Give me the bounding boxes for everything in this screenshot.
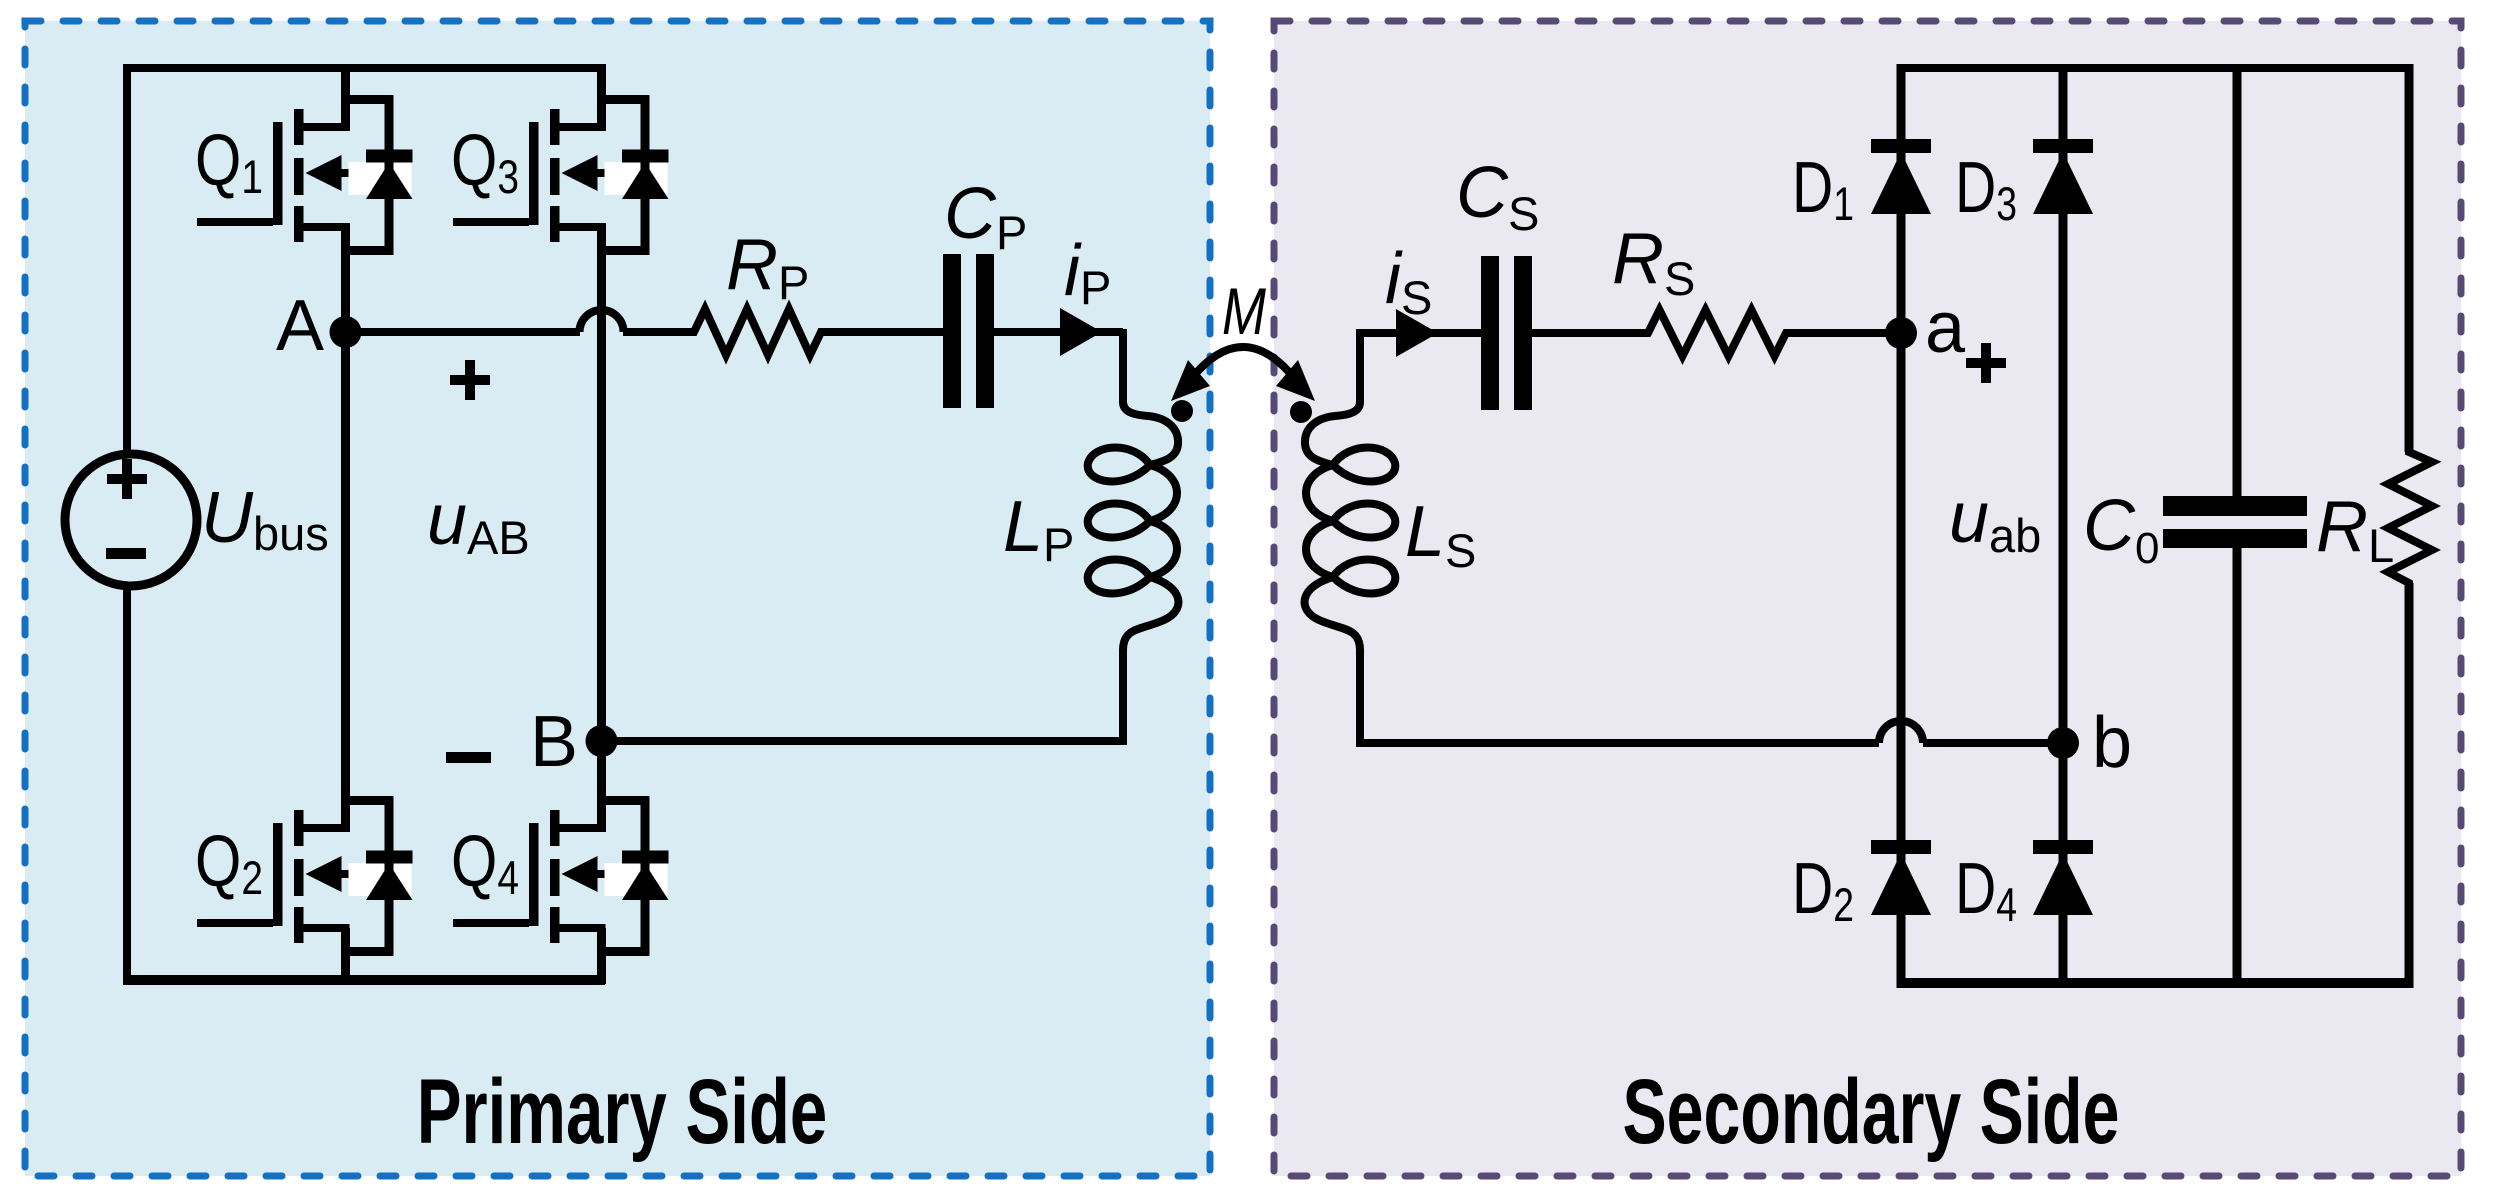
transistor Q1 (197, 95, 413, 255)
diode D2 (1871, 840, 1931, 915)
minus sign uAB (446, 752, 491, 763)
resistor RS (1642, 310, 1792, 356)
dot mark LS (1290, 401, 1312, 423)
transistor Q3 (453, 95, 669, 255)
wire: hop to node b (1923, 739, 2063, 747)
wire: LS top vertical (1356, 329, 1364, 389)
wire: left rail lower (123, 586, 131, 982)
node B (586, 725, 618, 757)
svg-text:a: a (1925, 288, 1966, 368)
wire hop over Q3 column (580, 310, 624, 332)
wire: left column vertical (Q1 source to Q2 drain) (341, 223, 350, 832)
coupling arrowhead right (1276, 360, 1315, 401)
plus sign uAB (450, 375, 490, 385)
svg-text:Secondary Side: Secondary Side (1623, 1059, 2120, 1162)
wire: C0 column upper (2233, 64, 2242, 496)
mutual coupling arc M (1187, 347, 1299, 384)
diode D1 (1871, 139, 1931, 214)
inductor LS (1305, 383, 1396, 743)
capacitor C0 (2163, 496, 2307, 516)
inductor LP (1088, 383, 1179, 743)
wire: top rail (123, 64, 605, 72)
svg-text:M: M (1222, 274, 1266, 348)
capacitor CP (943, 254, 961, 408)
wire: bottom rail (123, 975, 605, 985)
wire: CP to corner (994, 328, 1123, 336)
svg-text:b: b (2092, 703, 2132, 783)
wire: RP to CP (821, 328, 943, 336)
wire: A to hop (345, 328, 580, 336)
wire: bottom b wire left of hop (1356, 739, 1879, 747)
wire: Q4 source stub (597, 928, 606, 984)
minus sign of source (106, 548, 146, 559)
secondary side box (1274, 21, 2461, 1176)
primary side box (25, 21, 1210, 1176)
diode D4 (2033, 840, 2093, 915)
wire: LS corner to CS (1356, 329, 1481, 337)
node a (1885, 317, 1917, 349)
resistor RP (688, 309, 827, 355)
svg-text:A: A (276, 286, 324, 366)
svg-text:B: B (530, 702, 578, 782)
transistor Q2 (197, 796, 413, 956)
wire: bottom rail (1897, 978, 2414, 988)
wire: D1/D2 column (1897, 64, 1906, 988)
wire: CS to RS (1532, 329, 1648, 337)
node b (2047, 727, 2079, 759)
wire: RL column lower (2405, 583, 2414, 988)
wire: right column vertical (Q3 source to Q4 drain) (597, 223, 606, 832)
dot mark LP (1171, 400, 1193, 422)
wire: left rail upper (123, 64, 131, 454)
wire: Q1 drain stub (341, 64, 350, 131)
svg-text:Primary Side: Primary Side (417, 1061, 828, 1164)
wire: top rail (1897, 64, 2414, 72)
coupling arrowhead left (1171, 360, 1210, 401)
current arrow iP (1060, 308, 1102, 356)
wire: RL column upper (2405, 64, 2414, 452)
wire: Q3 drain stub (597, 64, 606, 131)
voltage source Ubus (65, 454, 197, 586)
capacitor CS (1481, 256, 1499, 410)
transistor Q4 (453, 796, 669, 956)
wire hop over D1 column (1879, 721, 1923, 743)
wire: corner down to coil (1119, 329, 1127, 389)
wire: hop to RP (623, 328, 694, 336)
wire: bottom B wire (605, 737, 1127, 745)
wire: C0 column lower (2233, 548, 2242, 988)
wire: RS to node a (1786, 329, 1901, 337)
current arrow iS (1396, 309, 1438, 357)
diode D3 (2033, 139, 2093, 214)
plus sign of source (107, 474, 147, 484)
node A (330, 316, 362, 348)
wire: D3/D4 column (2059, 64, 2068, 988)
resistor RL (2388, 446, 2432, 589)
wire: Q2 source stub (341, 928, 350, 984)
plus sign uab (1966, 358, 2006, 368)
